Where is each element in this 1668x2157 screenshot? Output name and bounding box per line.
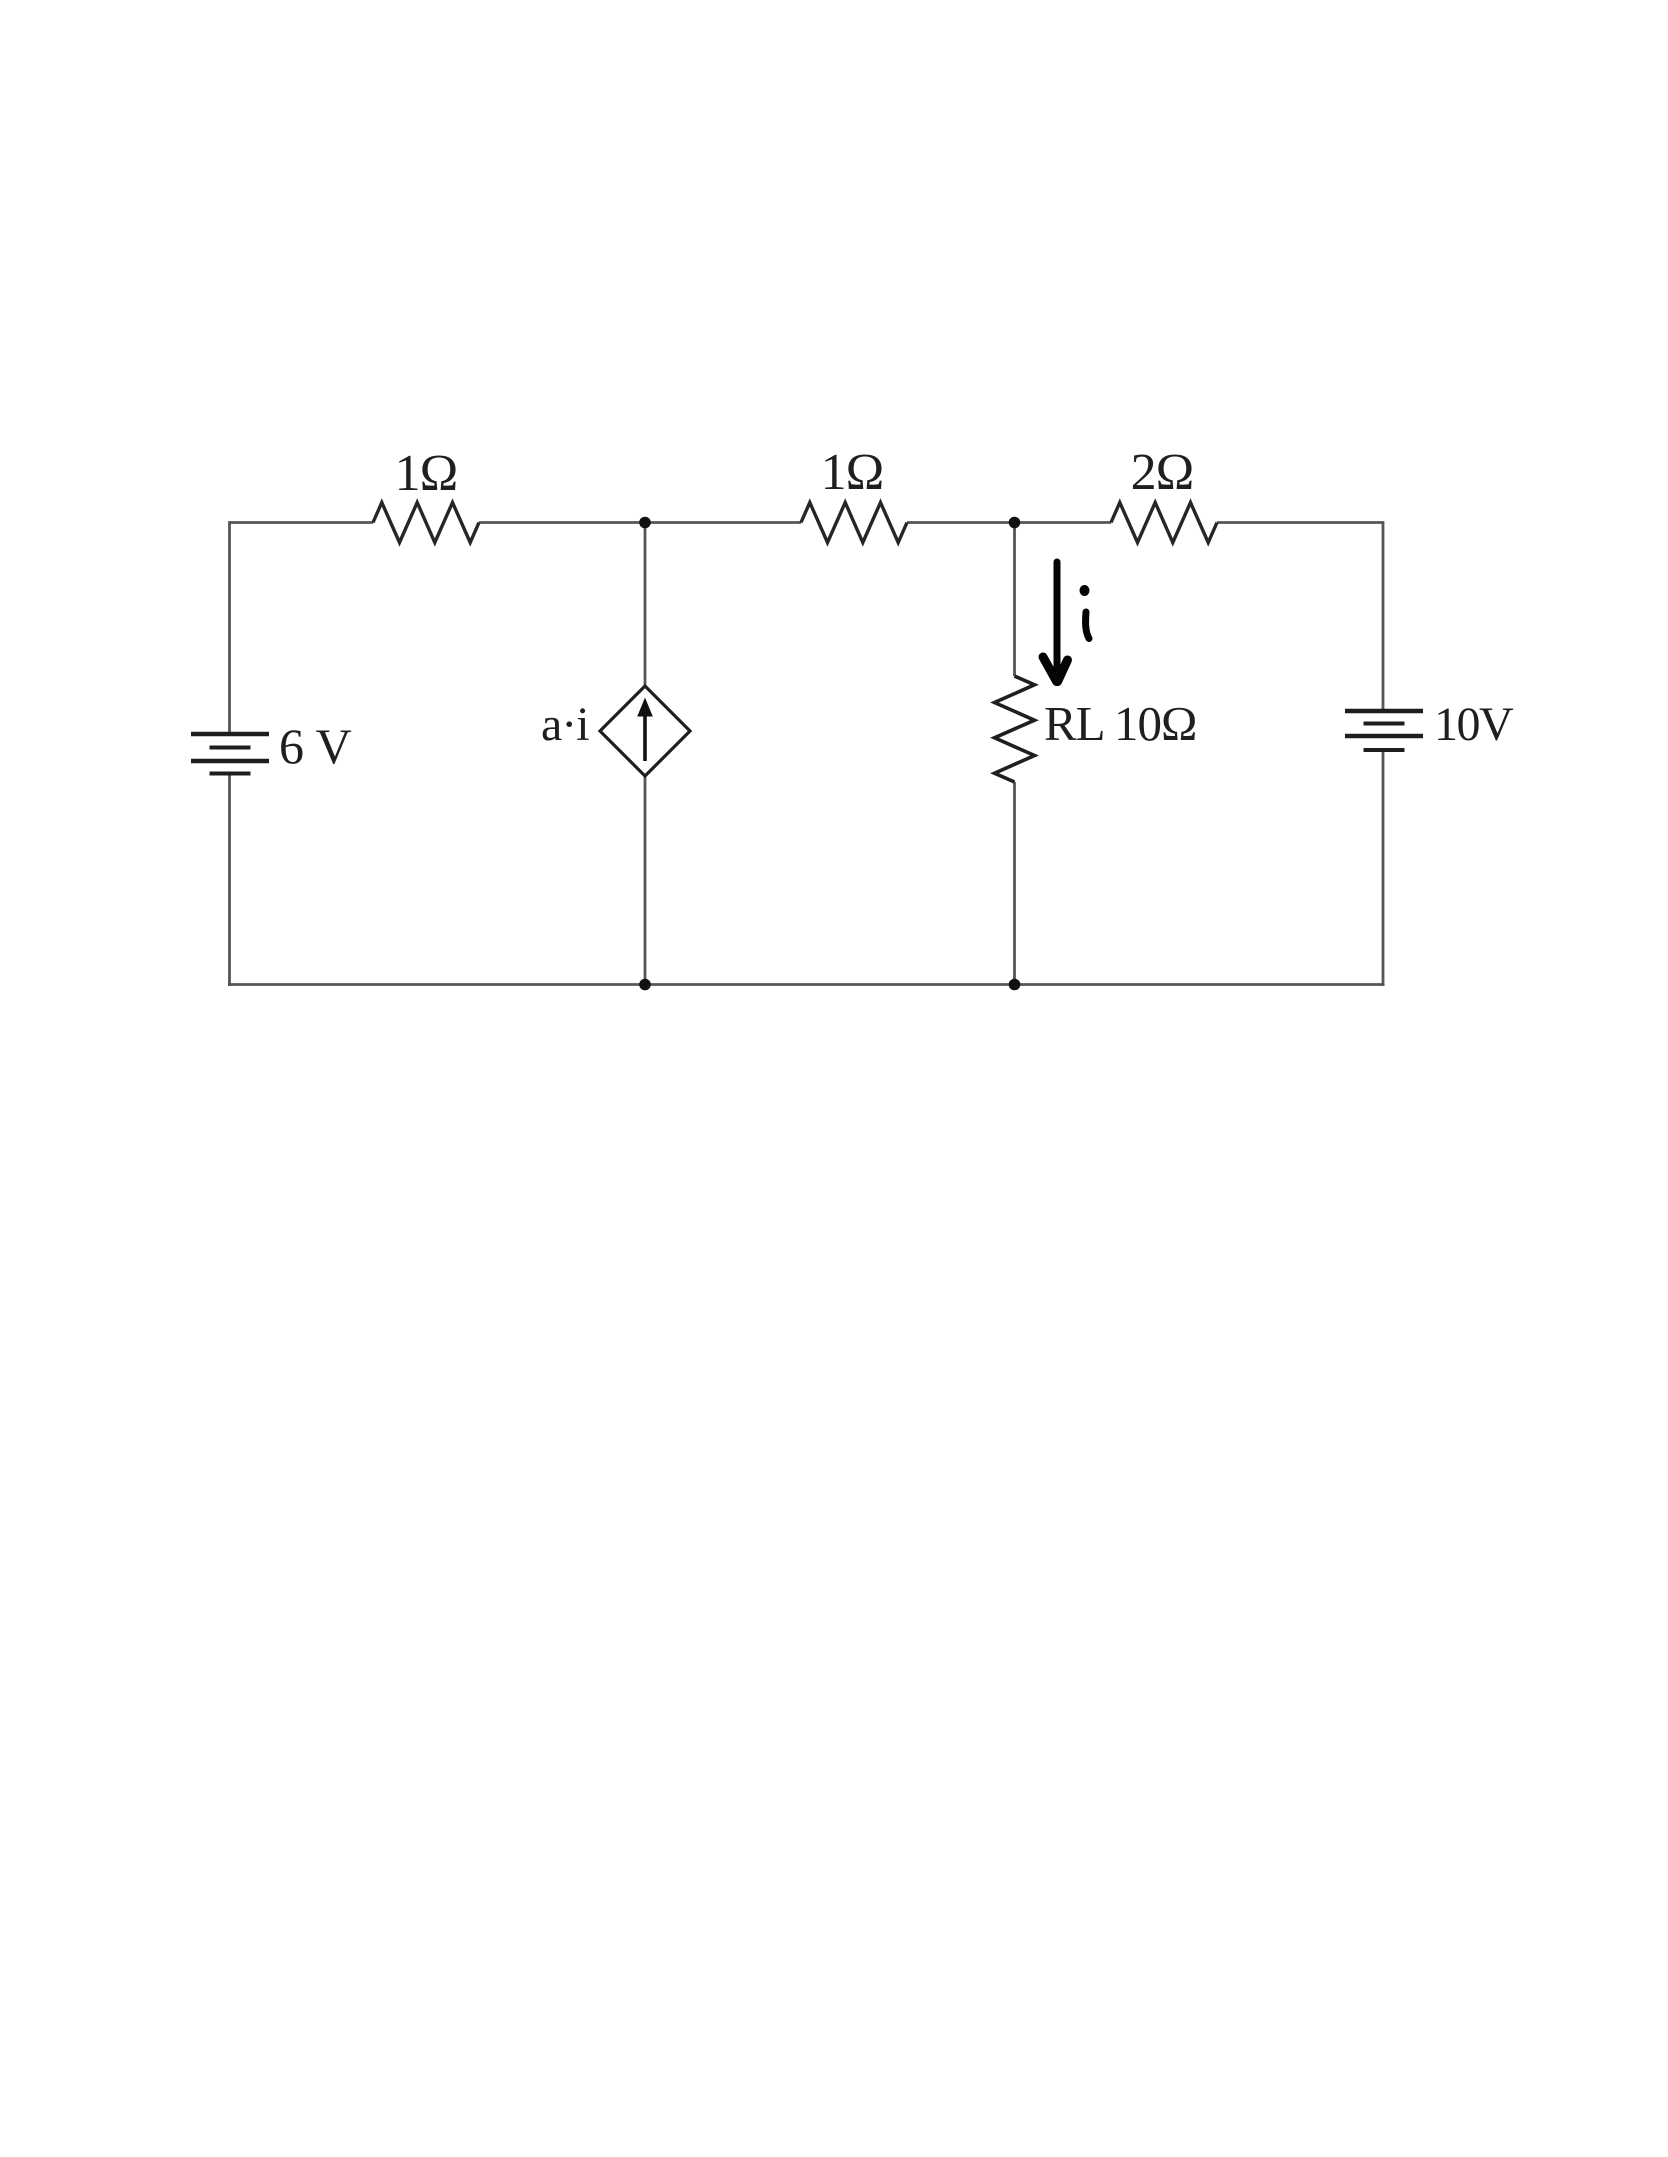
wire top-left segment — [230, 521, 374, 524]
wire top segment node B to R3 — [907, 521, 1111, 524]
svg-text:1Ω: 1Ω — [821, 444, 884, 501]
resistor RL 10ohm vertical — [995, 676, 1035, 782]
svg-text:2Ω: 2Ω — [1131, 444, 1194, 501]
wire bottom — [228, 983, 1385, 986]
dependent current source arrow — [637, 698, 653, 762]
wire right side upper — [1382, 521, 1385, 711]
voltage source V2 10V battery plates — [1345, 711, 1423, 750]
wire current source to bottom node C — [644, 775, 647, 985]
svg-text:6 V: 6 V — [279, 718, 352, 774]
svg-text:10V: 10V — [1434, 698, 1514, 751]
wire top middle segment node A to R2 — [479, 521, 801, 524]
resistor R3 2ohm top-right — [1111, 503, 1217, 543]
wire right side lower — [1382, 750, 1385, 986]
svg-text:1Ω: 1Ω — [395, 445, 458, 502]
node C junction dot bottom-left — [639, 979, 651, 991]
wire branch node A down to current source — [644, 523, 647, 688]
voltage source V1 6V battery plates — [191, 734, 269, 774]
wire branch node B down to RL — [1013, 523, 1016, 677]
current arrow i (hand-drawn) shaft — [1043, 562, 1068, 682]
svg-text:RL 10Ω: RL 10Ω — [1044, 696, 1196, 751]
wire top-right segment — [1217, 521, 1383, 524]
resistor R1 1ohm top-left — [373, 503, 479, 543]
wire RL to bottom node D — [1013, 782, 1016, 985]
label i (hand-drawn) — [1080, 585, 1090, 639]
node A junction dot top-left — [639, 517, 651, 529]
node B junction dot top-right — [1009, 517, 1021, 529]
wire left side upper — [228, 521, 231, 734]
resistor R2 1ohm top-middle — [801, 503, 907, 543]
svg-text:a·i: a·i — [541, 698, 589, 751]
wire left side lower — [228, 774, 231, 987]
dependent current source a·i diamond — [600, 686, 690, 776]
node D junction dot bottom-right — [1009, 979, 1021, 991]
